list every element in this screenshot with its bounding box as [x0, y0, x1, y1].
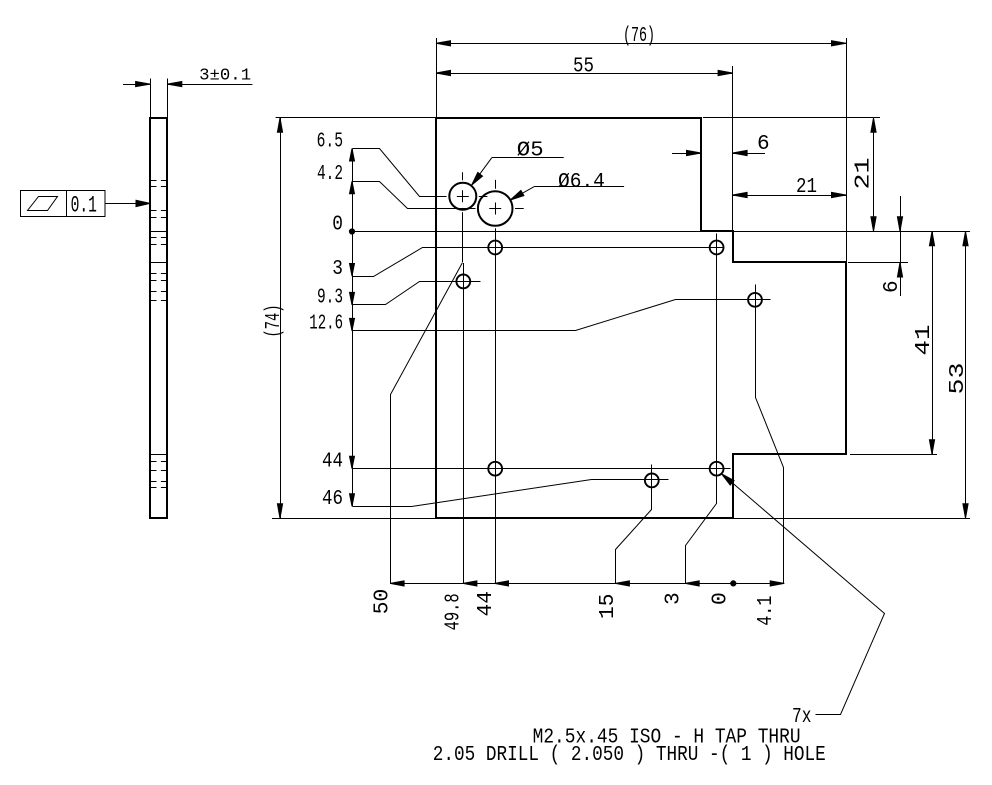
svg-text:55: 55: [573, 56, 594, 79]
svg-text:6.5: 6.5: [317, 130, 343, 153]
svg-text:6: 6: [881, 280, 904, 293]
svg-text:6: 6: [757, 133, 770, 156]
svg-text:3: 3: [332, 258, 343, 281]
svg-text:44: 44: [475, 591, 498, 617]
svg-text:(76): (76): [623, 25, 655, 48]
svg-text:4.1: 4.1: [755, 596, 778, 626]
svg-text:9.3: 9.3: [317, 287, 343, 310]
svg-text:Ø5: Ø5: [517, 140, 544, 163]
svg-text:4.2: 4.2: [317, 163, 343, 186]
svg-text:0: 0: [710, 592, 733, 605]
svg-text:15: 15: [597, 594, 620, 620]
svg-text:53: 53: [947, 363, 970, 395]
svg-text:0.1: 0.1: [71, 193, 97, 219]
svg-text:(74): (74): [263, 305, 286, 338]
svg-text:44: 44: [322, 451, 343, 474]
svg-text:46: 46: [322, 488, 343, 511]
svg-text:3±0.1: 3±0.1: [199, 67, 251, 86]
svg-text:2.05 DRILL ( 2.050 ) THRU -(: 2.05 DRILL ( 2.050 ) THRU -( 1 ) HOLE: [433, 744, 826, 767]
svg-text:3: 3: [663, 592, 686, 605]
svg-text:50: 50: [372, 589, 395, 615]
svg-text:41: 41: [913, 325, 936, 356]
svg-text:Ø6.4: Ø6.4: [558, 171, 605, 194]
svg-text:49.8: 49.8: [443, 593, 466, 630]
svg-text:21: 21: [796, 176, 817, 199]
svg-text:21: 21: [853, 158, 876, 190]
svg-text:12.6: 12.6: [309, 313, 343, 336]
svg-text:0: 0: [332, 213, 343, 236]
